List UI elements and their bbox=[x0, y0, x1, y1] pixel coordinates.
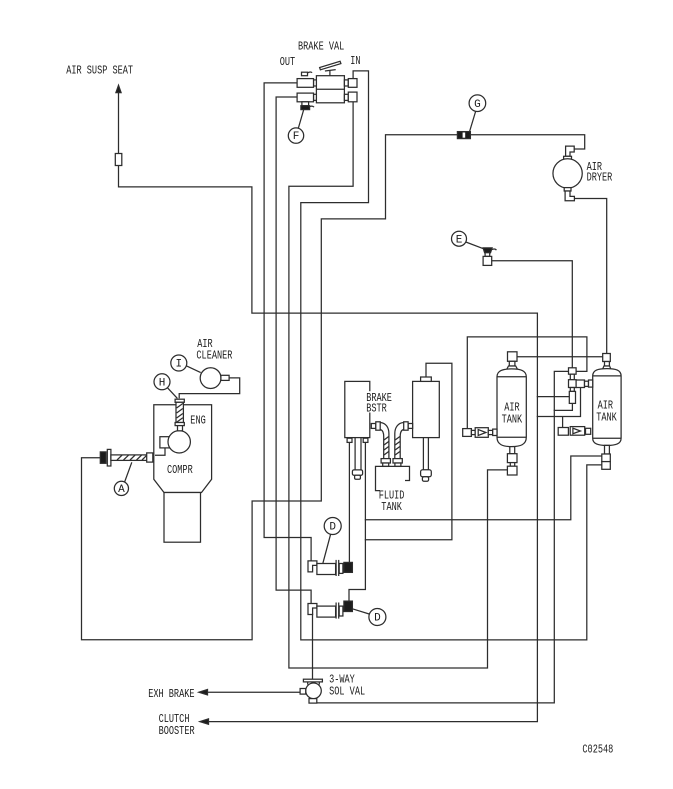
wire brake valve IN2 from air tank1 bottom bbox=[289, 102, 508, 668]
wire branch booster line to tank2 bottom via y519.7 bbox=[365, 456, 601, 520]
G pipe fitting (black) bbox=[457, 132, 470, 139]
E drain valve (black) with squiggle bbox=[483, 248, 496, 266]
brake valve F test fitting (black) bbox=[301, 102, 314, 110]
wire compressor discharge to air dryer (via G) bbox=[82, 135, 585, 640]
circle F bbox=[288, 110, 303, 143]
compressor pump circle with nose bbox=[155, 431, 190, 456]
air tank 2 fitting C bbox=[569, 388, 575, 404]
air tank 2 fitting A bbox=[569, 368, 577, 374]
wire tank2 fitting rail to tank1 check valve bbox=[467, 337, 587, 429]
compressor intake pipe with flange bbox=[100, 449, 153, 466]
air tank 2 bbox=[593, 354, 621, 446]
label BRAKE BSTR bbox=[366, 391, 393, 416]
wire fitting C bottom jog bbox=[554, 403, 572, 410]
wire air-susp-seat line: arrow to fitting, down, right, down, right to tank2 fitting, down to clutch line bbox=[119, 89, 538, 722]
wire booster right stub down, jog to D-valve2 port riser bbox=[349, 442, 365, 601]
circle D 2 bbox=[352, 609, 386, 626]
circle D 1 bbox=[323, 518, 341, 564]
svg-text:E: E bbox=[456, 234, 463, 246]
wire branch y416.5 to cross-fitting arm drop bbox=[537, 388, 580, 428]
svg-text:D: D bbox=[329, 522, 336, 534]
D-valve 1 port (black) bbox=[344, 562, 353, 572]
wire brake valve IN1 from air tank2 bottom bbox=[301, 71, 602, 640]
air dryer inlet elbow bbox=[566, 146, 575, 156]
hose booster to fluid tank bbox=[380, 423, 390, 467]
svg-text:H: H bbox=[159, 377, 166, 389]
engine chimney bbox=[164, 493, 201, 543]
wire branch to master cylinder top via y539.8 bbox=[365, 363, 452, 540]
svg-text:BRAKE VAL: BRAKE VAL bbox=[298, 40, 344, 54]
svg-text:IN: IN bbox=[350, 55, 360, 69]
circle I bbox=[171, 355, 201, 373]
svg-text:DRYER: DRYER bbox=[587, 171, 613, 185]
svg-text:A: A bbox=[118, 484, 125, 496]
air tank 1 bbox=[497, 352, 526, 447]
wire brake valve OUT1 to D-valve1 bbox=[264, 83, 311, 561]
air tank 1 bottom fittings bbox=[507, 447, 517, 475]
wire D-valve2 elbow down to sol valve top bbox=[312, 614, 314, 679]
D-valve 2 elbow bbox=[308, 604, 317, 615]
svg-text:OUT: OUT bbox=[280, 56, 295, 70]
air tank 1 check valve bbox=[463, 428, 497, 438]
brake booster body bbox=[345, 381, 370, 437]
wire air dryer outlet down to tank2 top bbox=[575, 199, 607, 354]
air susp seat arrow bbox=[116, 85, 121, 92]
wire branch to tank2 side fitting C bbox=[537, 396, 569, 398]
brake valve OUT port 1 bbox=[297, 72, 316, 87]
svg-text:AIR SUSP SEAT: AIR SUSP SEAT bbox=[66, 64, 133, 78]
D-valve 2 port (black) bbox=[344, 601, 353, 611]
master cylinder left port bbox=[404, 422, 413, 430]
master cylinder bbox=[413, 377, 440, 438]
air tank 2 cross fitting B with arm to tank bbox=[569, 380, 593, 388]
circle E bbox=[452, 231, 484, 249]
brake booster right port bbox=[371, 422, 380, 430]
brake valve body bbox=[316, 76, 344, 103]
svg-text:BOOSTER: BOOSTER bbox=[159, 725, 195, 739]
engine body bbox=[154, 405, 212, 493]
circle A bbox=[114, 462, 132, 495]
wire brake valve OUT2 to D-valve2 bbox=[276, 97, 311, 603]
air tank 2 fitting neck bbox=[570, 374, 574, 380]
wire exh brake line bbox=[206, 691, 300, 693]
svg-text:TANK: TANK bbox=[502, 413, 523, 427]
svg-text:TANK: TANK bbox=[381, 501, 402, 515]
circle H bbox=[154, 374, 177, 399]
svg-text:SOL VAL: SOL VAL bbox=[329, 685, 365, 699]
brake booster bottom stubs bbox=[347, 438, 368, 442]
svg-text:C02548: C02548 bbox=[582, 743, 613, 757]
air tank 2 bottom fittings bbox=[602, 445, 611, 469]
clutch booster arrow bbox=[200, 719, 209, 724]
air tank 2 check valve bbox=[558, 427, 591, 436]
exh brake arrow bbox=[199, 690, 208, 695]
air cleaner bbox=[200, 368, 229, 389]
svg-text:CLEANER: CLEANER bbox=[196, 349, 232, 363]
svg-text:G: G bbox=[474, 99, 481, 111]
svg-text:F: F bbox=[293, 131, 300, 143]
D-valve 1 elbow bbox=[308, 561, 317, 572]
svg-text:COMPR: COMPR bbox=[167, 464, 193, 478]
wire air cleaner outlet to engine intake pipe bbox=[179, 378, 240, 398]
air dryer outlet elbow bbox=[565, 191, 574, 201]
D-valve 2 body bbox=[317, 603, 343, 619]
wire tank1 top to tank2 top bbox=[517, 356, 603, 358]
brake booster drain tube with muffler bbox=[352, 438, 362, 480]
fluid tank bbox=[376, 466, 410, 490]
brake valve OUT port 2 bbox=[297, 93, 316, 102]
D-valve 1 body bbox=[317, 560, 343, 576]
engine intake vertical hose bbox=[175, 399, 184, 431]
svg-text:D: D bbox=[374, 613, 381, 625]
brake valve IN port 1 bbox=[344, 79, 357, 88]
circle G bbox=[469, 95, 486, 132]
air susp seat line fitting bbox=[115, 154, 122, 166]
air dryer body bbox=[553, 156, 582, 191]
svg-text:EXH BRAKE: EXH BRAKE bbox=[148, 688, 194, 702]
wire rail left stub and down to 3-way sol valve outlet bbox=[313, 371, 569, 703]
svg-text:BSTR: BSTR bbox=[366, 402, 387, 416]
master cylinder drain tube with muffler bbox=[421, 438, 432, 482]
svg-text:I: I bbox=[175, 359, 182, 371]
svg-text:ENG: ENG bbox=[190, 414, 205, 428]
hose master cylinder to fluid tank bbox=[393, 423, 404, 467]
3-way sol valve bbox=[300, 679, 322, 703]
wire booster left stub down to D-valve1 port bbox=[348, 442, 350, 562]
svg-text:TANK: TANK bbox=[596, 411, 617, 425]
brake valve IN port 2 bbox=[344, 92, 357, 102]
wire E drain valve to tank2 fitting A bbox=[492, 261, 573, 368]
brake valve pedal bbox=[320, 61, 341, 75]
